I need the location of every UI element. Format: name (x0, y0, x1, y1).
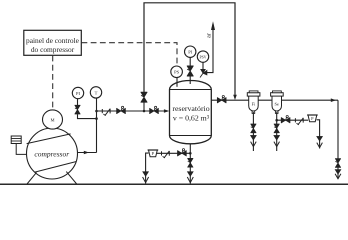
relief valve (angle) (200, 69, 207, 77)
funnel P (right) (307, 115, 318, 122)
valve V1 (117, 106, 126, 113)
wire: main pipe to reservoir (97, 110, 166, 112)
check valve CV1 (102, 109, 110, 116)
valve below PI (tank) (187, 66, 193, 76)
node: drain branch junction (189, 152, 192, 155)
reservoir tank (170, 81, 212, 144)
arrow into reservoir (164, 109, 169, 113)
node: bypass junction (143, 110, 146, 113)
vessel Fi (247, 91, 260, 114)
valve Se drain (274, 124, 279, 133)
funnel P (left) (148, 150, 159, 157)
wire: right drop line (337, 100, 339, 179)
svg-text:M: M (50, 118, 54, 123)
wire: Fi drain (252, 112, 254, 151)
valve Fi drain (251, 124, 256, 133)
instrument T1 (90, 87, 101, 98)
valve tank drain (188, 158, 193, 167)
instrument PI (compressor) (72, 87, 83, 98)
motor M (43, 110, 63, 129)
wire: PI tank stem (189, 75, 191, 84)
starter box (11, 136, 21, 144)
valve V6 (right drop) (335, 159, 340, 168)
valve below PI (compressor) (75, 105, 80, 114)
dashed control line to PS (82, 43, 178, 66)
drain arrow Se (274, 135, 280, 140)
svg-text:PSV: PSV (200, 56, 207, 60)
svg-text:compressor: compressor (34, 149, 69, 158)
ground line (0, 183, 348, 185)
svg-text:reservatório: reservatório (172, 104, 209, 113)
wire: purge branch to funnel (277, 119, 309, 121)
check valve CV2 (295, 118, 303, 125)
svg-text:painel de controle: painel de controle (26, 36, 80, 45)
svg-text:PI: PI (76, 91, 81, 96)
arrow: vent to atmosphere (211, 21, 215, 30)
wire: PSV vent line (207, 24, 213, 73)
svg-text:v = 0,62 m³: v = 0,62 m³ (173, 113, 210, 122)
wire: compressor outlet pipe (76, 151, 97, 155)
instrument PSV (197, 51, 208, 69)
valve V5 (purge) (281, 116, 290, 123)
node: riser-main pipe junction (95, 110, 98, 113)
check valve CV3 (162, 151, 170, 158)
valve V2 (150, 106, 159, 113)
wire: bypass riser lower (143, 102, 145, 111)
compressor (27, 128, 78, 179)
dashed control line to motor (52, 56, 54, 110)
control panel box (24, 30, 82, 55)
svg-text:Se: Se (274, 102, 278, 107)
instrument PS (171, 66, 183, 87)
compressor legs (27, 172, 37, 184)
wire: PI branch (78, 114, 97, 118)
vessel Se (271, 91, 284, 114)
drain arrow right drop (335, 170, 341, 175)
arrow down to filter line (233, 95, 237, 100)
valve V7 (drain branch) (178, 149, 187, 156)
wire: PI stem (77, 99, 79, 105)
wire: bypass riser and top loop (144, 3, 235, 96)
node: riser-PI branch junction (95, 117, 98, 120)
svg-text:PI: PI (188, 50, 193, 55)
wire: funnel drop left (146, 153, 149, 183)
svg-text:PS: PS (174, 70, 180, 75)
wire: drain branch to funnel (left) (157, 152, 190, 154)
svg-text:T: T (95, 90, 98, 95)
instrument PI (tank) (185, 46, 196, 67)
wire: tank outlet to filters (211, 99, 338, 101)
wire: starter to compressor (16, 144, 27, 155)
node: purge branch junction (275, 119, 278, 122)
drain arrow tank (187, 172, 193, 177)
wire: tank drain (189, 144, 191, 184)
svg-text:ar: ar (206, 33, 212, 38)
drain arrow (funnel right) (317, 136, 323, 141)
wire: funnel drop right (317, 120, 320, 149)
wire: Se drain (276, 112, 278, 151)
valve V4 (tank outlet) (217, 96, 226, 103)
svg-text:do compressor: do compressor (31, 45, 75, 54)
drain arrow Fi (251, 135, 257, 140)
arrow: flow to right drop (331, 98, 336, 102)
valve V3 (bypass) (141, 92, 147, 102)
drain arrow funnel left (143, 172, 149, 177)
wire: discharge riser (96, 98, 98, 152)
